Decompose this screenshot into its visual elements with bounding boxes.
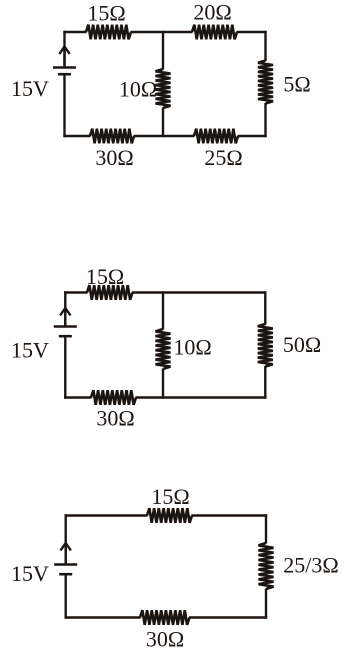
wire left lower (battery - plate to bottom corner) (63, 74, 65, 137)
battery positive plate (long) (54, 325, 77, 328)
battery negative plate (short) (58, 73, 71, 76)
svg-text:30Ω: 30Ω (146, 627, 184, 652)
wire top-middle (131, 31, 193, 33)
svg-text:15Ω: 15Ω (151, 484, 189, 509)
wire middle branch lower (162, 369, 164, 399)
wire middle branch upper (162, 291, 164, 329)
wire left upper (to battery) (64, 514, 66, 564)
svg-text:50Ω: 50Ω (283, 332, 321, 357)
resistor 25/3 ohm (right branch) (259, 543, 274, 589)
wire bottom-right (136, 396, 267, 398)
wire middle branch lower (162, 108, 164, 138)
svg-text:30Ω: 30Ω (95, 145, 133, 170)
svg-text:15Ω: 15Ω (86, 264, 124, 289)
wire right upper (264, 31, 266, 61)
svg-text:10Ω: 10Ω (119, 77, 157, 102)
resistor 30ohm (bottom) (140, 610, 190, 625)
resistor 20ohm (top right) (192, 25, 237, 40)
resistor 25ohm (bottom right) (194, 129, 238, 144)
battery positive plate (long) (53, 66, 76, 69)
svg-text:25/3Ω: 25/3Ω (283, 553, 338, 578)
wire left upper (top corner to battery + plate) (63, 31, 65, 68)
wire bottom-left (65, 616, 141, 618)
wire right upper (265, 514, 267, 543)
battery arrow (current direction) (63, 47, 65, 68)
wire right lower (265, 589, 267, 619)
resistor 15ohm (top) (87, 285, 133, 300)
svg-text:15Ω: 15Ω (87, 1, 125, 26)
wire left lower (64, 336, 66, 399)
battery negative plate (short) (59, 335, 72, 338)
battery arrow (current direction) (64, 543, 66, 565)
battery positive plate (long) (54, 563, 77, 566)
resistor 5ohm (right branch) (258, 61, 273, 104)
wire bottom-right (238, 135, 267, 137)
wire top-right (237, 31, 267, 33)
svg-text:15V: 15V (11, 561, 49, 586)
resistor 15ohm (top left) (86, 25, 131, 40)
svg-text:5Ω: 5Ω (283, 72, 310, 97)
resistor 30ohm (bottom) (91, 390, 136, 405)
resistor 10ohm (middle branch) (156, 329, 171, 369)
svg-text:30Ω: 30Ω (96, 406, 134, 431)
wire left upper (to battery) (64, 291, 66, 326)
svg-text:10Ω: 10Ω (173, 335, 211, 360)
wire top-left (node A to R 15ohm) (63, 31, 86, 33)
wire bottom-left (64, 396, 91, 398)
battery negative plate (short) (59, 573, 72, 576)
battery arrow (current direction) (64, 308, 66, 327)
wire top-right segment (132, 291, 267, 293)
wire left lower (64, 574, 66, 619)
wire bottom-middle (134, 135, 195, 137)
wire right upper (264, 291, 266, 324)
resistor 50ohm (right branch) (258, 324, 273, 367)
svg-text:15V: 15V (11, 76, 49, 101)
wire top-right segment (192, 514, 268, 516)
circuit 1 (11, 0, 311, 170)
resistor 30ohm (bottom left) (90, 129, 134, 144)
wire middle branch upper (162, 31, 164, 70)
svg-text:25Ω: 25Ω (204, 145, 242, 170)
wire right lower (264, 366, 266, 399)
svg-text:20Ω: 20Ω (193, 0, 231, 25)
svg-text:15V: 15V (11, 338, 49, 363)
circuit 2 (11, 264, 321, 431)
circuit 3 (11, 484, 339, 652)
wire bottom-right (189, 616, 267, 618)
wire top-left segment (65, 514, 148, 516)
wire right lower (264, 103, 266, 137)
resistor 15ohm (top) (147, 508, 192, 523)
wire top-left segment (64, 291, 87, 293)
wire bottom-left (63, 135, 90, 137)
resistor 10ohm (middle branch) (156, 69, 171, 108)
